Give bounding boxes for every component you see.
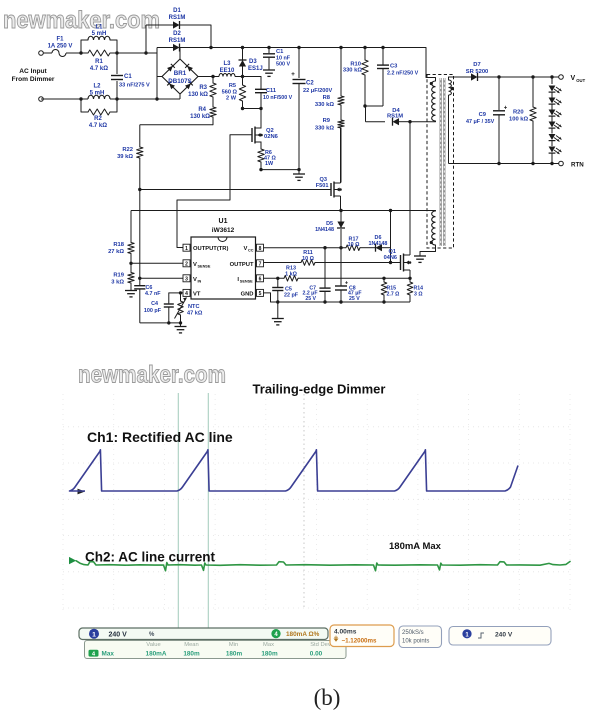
svg-text:22 μF/200V: 22 μF/200V <box>303 88 333 94</box>
svg-text:180m: 180m <box>261 650 278 657</box>
caption (b) <box>314 685 341 710</box>
svg-text:7: 7 <box>259 262 262 268</box>
resistor R10 <box>343 48 368 107</box>
Ch2 waveform line current <box>76 561 570 571</box>
ground (NTC) <box>175 323 187 333</box>
pin boxes U1 right 8-5 <box>257 244 264 297</box>
svg-text:2.2 nF/250 V: 2.2 nF/250 V <box>387 71 419 77</box>
svg-text:10 nF/500 V: 10 nF/500 V <box>263 95 293 101</box>
svg-text:VT: VT <box>193 291 201 297</box>
svg-text:ES1J: ES1J <box>248 66 263 72</box>
resistor R13 1k <box>284 266 298 282</box>
diode D7 SR5200 <box>456 62 559 81</box>
svg-text:3: 3 <box>185 277 188 283</box>
svg-text:−1.12000ms: −1.12000ms <box>342 638 377 645</box>
trigger box <box>449 627 551 646</box>
svg-text:L1: L1 <box>95 25 103 31</box>
svg-text:33 nF/275 V: 33 nF/275 V <box>119 83 150 89</box>
capacitor C11 <box>255 77 293 109</box>
svg-text:500 V: 500 V <box>276 62 290 68</box>
wire Vin sense drop <box>139 190 141 279</box>
transformer core <box>441 78 445 246</box>
top supply rail <box>211 46 426 49</box>
svg-text:02N6: 02N6 <box>264 134 279 140</box>
svg-text:2: 2 <box>185 262 188 268</box>
svg-text:R4: R4 <box>198 107 206 113</box>
capacitor C5 22pF <box>272 278 299 302</box>
svg-text:8: 8 <box>259 246 262 252</box>
svg-text:2.7 Ω: 2.7 Ω <box>387 291 400 297</box>
Vout rail dots <box>497 75 553 78</box>
svg-text:C4: C4 <box>151 301 158 307</box>
op-amp U1 iW3612 body <box>191 218 256 299</box>
svg-text:10k points: 10k points <box>402 639 429 645</box>
svg-text:newmaker.com: newmaker.com <box>78 362 226 389</box>
wire rectified bus <box>198 75 261 78</box>
resistor R19 3k <box>111 263 134 290</box>
svg-text:1 kΩ: 1 kΩ <box>285 271 297 277</box>
wire pin3 Vin <box>138 277 183 280</box>
svg-text:+: + <box>504 106 508 112</box>
resistor R2 <box>81 99 117 129</box>
LED string <box>549 77 562 164</box>
U1 pin names <box>193 246 254 297</box>
resistor R4 <box>190 107 216 125</box>
wire Q2 gate <box>177 135 252 248</box>
svg-text:0.00: 0.00 <box>310 650 323 657</box>
label Ch1 <box>87 429 233 445</box>
resistor R6 47ohm 1W <box>258 149 277 170</box>
ground (R19) <box>125 291 137 297</box>
diode D3 ES1J <box>239 48 263 77</box>
resistor R22 39k <box>117 125 143 190</box>
fuse F1 <box>43 37 81 57</box>
svg-text:CC: CC <box>248 249 254 253</box>
label AC Input From Dimmer <box>12 68 55 83</box>
svg-text:Max: Max <box>102 650 115 657</box>
AC input terminal bottom <box>39 97 44 102</box>
thermistor NTC 47k <box>175 293 203 323</box>
svg-text:R19: R19 <box>113 273 124 279</box>
capacitor C3 2.2nF/250V <box>365 48 419 107</box>
svg-text:R22: R22 <box>122 147 133 153</box>
svg-text:180mA Max: 180mA Max <box>389 541 442 552</box>
transformer primary winding <box>426 48 436 122</box>
resistor R8 <box>315 48 344 121</box>
svg-text:RS1M: RS1M <box>387 114 403 120</box>
svg-text:5 mH: 5 mH <box>92 31 107 37</box>
svg-text:180m: 180m <box>183 650 200 657</box>
Ch1 waveform rectified AC <box>70 450 519 491</box>
wire R22 to Q3 gate <box>138 188 331 191</box>
resistor R18 27k <box>108 211 134 264</box>
svg-text:2 W: 2 W <box>226 96 237 102</box>
svg-text:Std Dev: Std Dev <box>310 642 331 648</box>
status bar channel readouts <box>79 628 328 640</box>
pin boxes U1 left 1-4 <box>183 244 190 297</box>
resistor R1 <box>88 50 110 72</box>
svg-text:27 kΩ: 27 kΩ <box>108 249 124 255</box>
svg-text:SR 5200: SR 5200 <box>466 69 489 75</box>
svg-text:330 kΩ: 330 kΩ <box>315 126 335 132</box>
transistor Q2 02N6 <box>252 109 279 150</box>
svg-text:IN: IN <box>198 279 202 283</box>
svg-text:6: 6 <box>259 277 262 283</box>
svg-text:iW3612: iW3612 <box>212 227 235 234</box>
svg-text:D3: D3 <box>249 59 257 65</box>
capacitor C4 100pF <box>144 293 174 323</box>
inductor L1 <box>81 25 117 54</box>
svg-text:GND: GND <box>241 291 254 297</box>
node RTN terminal <box>559 161 585 168</box>
svg-text:R9: R9 <box>323 118 331 124</box>
svg-text:1: 1 <box>92 631 96 638</box>
svg-text:R5: R5 <box>229 83 236 89</box>
capacitor C8 47uF 25V <box>335 248 362 302</box>
svg-text:%: % <box>149 632 155 638</box>
svg-text:V: V <box>193 277 197 283</box>
capacitor C1 33nF/275V <box>111 53 150 99</box>
svg-text:V: V <box>244 246 248 252</box>
svg-text:R8: R8 <box>323 95 331 101</box>
resistor R5 <box>222 77 246 109</box>
svg-text:47 kΩ: 47 kΩ <box>187 310 203 316</box>
svg-text:3 Ω: 3 Ω <box>414 291 423 297</box>
wire top AC line <box>79 51 157 54</box>
svg-text:Ch2: AC line current: Ch2: AC line current <box>85 550 216 565</box>
ground (signal) <box>272 302 284 325</box>
AC input terminal top <box>39 51 44 56</box>
svg-text:(b): (b) <box>314 685 341 710</box>
svg-text:DB107S: DB107S <box>168 78 191 85</box>
capacitor C6 4.7nF <box>134 278 161 323</box>
svg-text:R20: R20 <box>513 110 524 116</box>
bridge rectifier BR1 DB107S <box>162 48 198 100</box>
svg-text:From Dimmer: From Dimmer <box>12 76 55 83</box>
svg-text:D7: D7 <box>473 62 480 68</box>
transformer secondary winding <box>449 77 457 164</box>
svg-text:1W: 1W <box>265 161 274 167</box>
wire pin4 VT <box>169 291 183 294</box>
svg-text:Max: Max <box>263 642 274 648</box>
resistor R14 3ohm <box>407 278 423 302</box>
svg-text:C11: C11 <box>266 88 276 94</box>
svg-text:130 kΩ: 130 kΩ <box>188 92 208 98</box>
svg-text:10 Ω: 10 Ω <box>348 242 360 248</box>
resistor R11 10ohm <box>301 250 315 265</box>
diode D5 1N4148 <box>315 211 345 248</box>
ground (C2) <box>293 170 305 181</box>
wire divider to R22 <box>140 124 213 126</box>
wire Q2 source return <box>259 168 300 171</box>
wire pin2 Vsense <box>129 262 183 265</box>
diode D4 RS1M <box>363 104 411 125</box>
svg-text:5: 5 <box>259 291 262 297</box>
svg-text:Trailing-edge Dimmer: Trailing-edge Dimmer <box>253 382 386 397</box>
svg-text:D1: D1 <box>173 8 181 14</box>
svg-text:Mean: Mean <box>184 642 199 648</box>
svg-text:04N6: 04N6 <box>384 255 397 261</box>
svg-text:OUT: OUT <box>576 78 585 83</box>
svg-text:Value: Value <box>146 642 160 648</box>
inductor L3 EE10 <box>219 61 235 77</box>
diode D1 <box>146 8 211 53</box>
svg-text:1N4148: 1N4148 <box>315 227 334 233</box>
wire pin1 stub <box>177 247 183 249</box>
svg-text:Ch1: Rectified AC line: Ch1: Rectified AC line <box>87 429 233 445</box>
svg-text:25 V: 25 V <box>349 296 360 302</box>
svg-text:OUTPUT: OUTPUT <box>230 262 254 268</box>
svg-text:25 V: 25 V <box>305 296 316 302</box>
svg-text:330 kΩ: 330 kΩ <box>315 102 335 108</box>
svg-text:RS1M: RS1M <box>169 15 186 21</box>
svg-text:F501: F501 <box>316 183 329 189</box>
resistor R15 2.7ohm <box>381 278 399 302</box>
wire bottom AC line <box>41 97 180 100</box>
wire primary bottom to drain node <box>410 120 436 123</box>
resistor R17 10ohm <box>346 237 360 251</box>
svg-text:U1: U1 <box>219 218 228 225</box>
resistor R9 <box>315 118 344 183</box>
svg-text:C3: C3 <box>390 64 398 70</box>
svg-text:100 kΩ: 100 kΩ <box>509 117 529 123</box>
svg-text:+: + <box>291 71 295 78</box>
svg-text:240 V: 240 V <box>109 631 128 638</box>
svg-text:3 kΩ: 3 kΩ <box>111 279 124 285</box>
svg-text:F1: F1 <box>56 37 64 43</box>
wire ground rail U1 <box>264 293 411 304</box>
RTN rail <box>449 162 559 165</box>
wire NTC ground rail <box>140 321 182 324</box>
svg-text:newmaker.com: newmaker.com <box>3 7 160 34</box>
capacitor C7 2.2uF 25V <box>303 248 331 302</box>
Ch2 reference marker <box>69 557 76 564</box>
label 180mA Max <box>389 541 442 552</box>
svg-text:SENSE: SENSE <box>198 264 211 268</box>
svg-text:AC Input: AC Input <box>19 68 47 75</box>
svg-text:V: V <box>571 75 576 82</box>
svg-text:C9: C9 <box>479 112 487 118</box>
cursor lines <box>178 393 208 628</box>
resistor R3 <box>188 77 216 108</box>
Ch1 reference marker <box>78 489 86 495</box>
svg-text:330 kΩ: 330 kΩ <box>343 68 363 74</box>
svg-text:250kS/s: 250kS/s <box>402 630 424 636</box>
svg-text:22 pF: 22 pF <box>284 293 299 299</box>
svg-text:SENSE: SENSE <box>240 279 253 283</box>
transistor Q3 F501 <box>316 128 342 211</box>
wire aux feedback line <box>131 209 427 212</box>
svg-text:NTC: NTC <box>188 304 200 310</box>
svg-text:C2: C2 <box>306 81 314 87</box>
svg-text:1A 250 V: 1A 250 V <box>48 44 73 50</box>
svg-text:L3: L3 <box>223 61 231 67</box>
wire AC to bridge vertical <box>157 48 162 100</box>
svg-text:1: 1 <box>185 246 188 252</box>
diode D2 <box>157 31 213 52</box>
capacitor C2 22uF/200V <box>291 48 332 170</box>
svg-text:130 kΩ: 130 kΩ <box>190 114 210 120</box>
wire pin7 OUTPUT line <box>264 262 401 264</box>
diode D6 1N4148 <box>360 235 391 252</box>
svg-text:EE10: EE10 <box>220 68 235 74</box>
capacitor C9 47uF/35V <box>466 77 508 164</box>
title Trailing-edge Dimmer <box>253 382 386 397</box>
node Vout terminal <box>559 75 586 83</box>
svg-text:R1: R1 <box>95 59 103 65</box>
svg-text:47 μF / 35V: 47 μF / 35V <box>466 119 495 125</box>
svg-text:4.7 kΩ: 4.7 kΩ <box>90 66 108 72</box>
wire pin6 Isense line <box>264 277 412 280</box>
measurement table <box>85 641 347 659</box>
ground (aux winding) <box>414 256 426 262</box>
svg-text:1N4148: 1N4148 <box>369 241 388 247</box>
capacitor C1 10nF 500V <box>263 48 291 71</box>
wire pin8 Vcc line <box>264 246 347 249</box>
record box <box>399 626 442 648</box>
label Ch2 <box>85 550 216 565</box>
svg-text:4.7 nF: 4.7 nF <box>145 291 161 297</box>
svg-text:Min: Min <box>229 642 238 648</box>
svg-text:100 pF: 100 pF <box>144 308 162 314</box>
svg-text:V: V <box>193 262 197 268</box>
transformer T1 dashed boundary <box>427 75 454 249</box>
resistor R20 100k <box>509 77 536 164</box>
wire D6 to gate node <box>389 211 392 265</box>
wire C11 R5 node <box>241 107 263 110</box>
inductor L2 <box>88 84 110 100</box>
ground (C1) <box>263 70 275 76</box>
svg-text:240 V: 240 V <box>495 632 513 639</box>
svg-text:180mA: 180mA <box>146 650 167 657</box>
timebase box <box>330 625 394 647</box>
svg-text:5 mH: 5 mH <box>90 91 105 97</box>
scope graticule <box>63 394 570 610</box>
svg-text:L2: L2 <box>93 84 101 90</box>
svg-text:RTN: RTN <box>571 162 584 169</box>
svg-text:BR1: BR1 <box>174 70 187 77</box>
svg-text:D2: D2 <box>173 31 181 37</box>
svg-text:OUTPUT(TR): OUTPUT(TR) <box>193 246 228 252</box>
svg-text:10 Ω: 10 Ω <box>302 256 314 262</box>
svg-text:180m: 180m <box>226 650 243 657</box>
svg-text:RS1M: RS1M <box>169 38 186 44</box>
transformer auxiliary winding <box>420 211 436 257</box>
svg-text:4: 4 <box>185 291 188 297</box>
svg-text:180mA Ω%: 180mA Ω% <box>286 631 320 638</box>
svg-text:4.7 kΩ: 4.7 kΩ <box>89 123 107 129</box>
transistor Q1 04N6 <box>384 122 412 279</box>
svg-text:R3: R3 <box>199 85 207 91</box>
svg-text:4.00ms: 4.00ms <box>334 629 357 636</box>
svg-text:R2: R2 <box>94 116 102 122</box>
svg-text:C1: C1 <box>124 74 132 80</box>
svg-text:C1: C1 <box>276 49 284 55</box>
svg-text:39 kΩ: 39 kΩ <box>117 154 133 160</box>
svg-text:R18: R18 <box>113 242 124 248</box>
